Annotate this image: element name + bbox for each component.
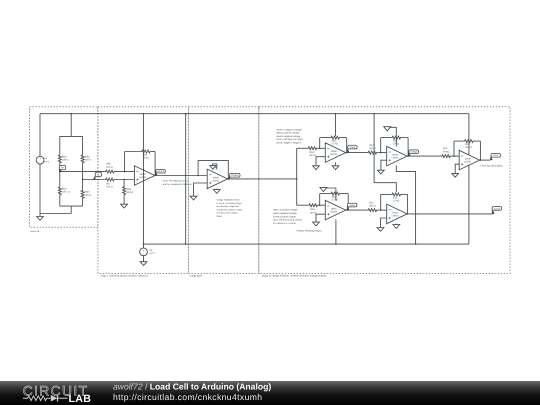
wire R06 to opamp xyxy=(115,171,134,173)
svg-text:Vstable: Vstable xyxy=(231,174,239,177)
junction top rail / V2 column xyxy=(143,113,145,115)
svg-text:Vneg: Vneg xyxy=(350,146,356,149)
svg-text:Inverts negative voltage: Inverts negative voltage xyxy=(276,135,301,138)
svg-text:Positive Reading Output: Positive Reading Output xyxy=(296,229,321,232)
op-amp OA05 buffer xyxy=(207,169,227,189)
svg-text:100 Ω: 100 Ω xyxy=(85,194,92,197)
wire BL output xyxy=(346,209,368,211)
junction stage1 fb node xyxy=(124,171,126,173)
wire final plus input xyxy=(455,164,459,173)
buffer V+ pin symbol xyxy=(216,164,218,169)
wire BL fb top a xyxy=(320,193,331,195)
svg-text:10 V: 10 V xyxy=(44,160,49,163)
wire TM output xyxy=(407,155,441,157)
junction top rail / mid column xyxy=(185,113,187,115)
wire split vertical xyxy=(296,148,298,205)
junction bottom rail BL column xyxy=(335,243,337,245)
junction top rail / TL drop xyxy=(335,113,337,115)
wire TM fb top b xyxy=(401,137,408,139)
BL V+ arrow xyxy=(327,188,336,201)
resistor R03 BL input xyxy=(308,204,318,207)
wire bridge bottom xyxy=(60,205,83,207)
wire bridge tap minus xyxy=(83,179,105,181)
wire bridge right mid xyxy=(82,164,84,190)
junction stage1 fb output xyxy=(154,175,156,177)
resistor RG3 xyxy=(81,154,84,163)
wire TL fb top b xyxy=(340,137,347,139)
wire final rail column xyxy=(468,114,470,244)
wire final output xyxy=(480,159,491,161)
junction bridge left tap xyxy=(59,171,61,173)
output tag TL Vneg xyxy=(347,149,349,153)
wire TM fb down xyxy=(407,138,409,157)
svg-text:100 Ω: 100 Ω xyxy=(62,158,69,161)
output tag TM Vneg2 xyxy=(408,154,410,156)
wire buffer plus input xyxy=(194,183,208,196)
svg-text:http://circuitlab.com/cnkcknu4: http://circuitlab.com/cnkcknu4txumh xyxy=(113,392,262,402)
junction BM input node xyxy=(380,209,382,211)
wire BL fb top b xyxy=(340,193,348,195)
svg-text:OA01: OA01 xyxy=(331,208,338,211)
svg-text:39 kΩ: 39 kΩ xyxy=(443,150,450,153)
svg-text:Voltage Stabilized version: Voltage Stabilized version xyxy=(217,199,240,202)
ground buffer plus xyxy=(190,196,197,200)
wire bottom rail xyxy=(144,243,469,245)
wire TL input stub xyxy=(297,147,308,149)
junction final input node xyxy=(453,155,455,157)
junction bottom rail V2 xyxy=(143,243,145,245)
svg-text:Effect.: Effect. xyxy=(217,215,223,218)
junction buffer fb output xyxy=(228,178,230,180)
ground R09 xyxy=(121,204,128,208)
junction stage1 out / mid column xyxy=(185,175,187,177)
svg-text:OA03: OA03 xyxy=(392,154,399,157)
wire BL fb left xyxy=(319,194,321,206)
svg-text:OA04: OA04 xyxy=(465,158,472,161)
wire bridge left lower xyxy=(59,196,61,207)
output tag Vout xyxy=(490,157,492,160)
output tag BM Vpos2 xyxy=(492,210,494,214)
svg-text:rejects positive voltage.: rejects positive voltage. xyxy=(276,132,300,135)
wire bridge top xyxy=(60,135,83,137)
junction BL fb out xyxy=(347,209,349,211)
op-amp OA03 TM xyxy=(387,146,407,166)
wire bridge tap plus xyxy=(60,171,105,173)
junction bottom rail mid column xyxy=(185,243,187,245)
svg-text:LAB: LAB xyxy=(69,393,92,405)
wire final fb top a xyxy=(454,140,464,142)
svg-text:Stage 2: Voltage Follower / In: Stage 2: Voltage Follower / Inverter (Po… xyxy=(262,275,327,278)
junction bottom rail TM column xyxy=(415,243,417,245)
ground BL plus xyxy=(313,222,320,226)
op-amp OA07 BM xyxy=(387,204,407,224)
ground BM V- xyxy=(395,224,397,225)
wire R09 bottom xyxy=(123,195,125,204)
resistor RG4 xyxy=(81,190,84,199)
ground final plus xyxy=(452,173,459,177)
junction TM fb out xyxy=(407,155,409,157)
svg-text:39 kΩ: 39 kΩ xyxy=(465,146,472,149)
wire BL input stub xyxy=(297,204,309,206)
svg-text:27 kΩ: 27 kΩ xyxy=(393,199,400,202)
svg-text:100 Ω: 100 Ω xyxy=(85,158,92,161)
svg-text:39 kΩ: 39 kΩ xyxy=(369,147,376,150)
resistor R15 BM feedback xyxy=(391,193,401,196)
wire R09 top xyxy=(123,180,125,187)
svg-text:input. Load here can amps: input. Load here can amps xyxy=(276,138,304,141)
ground V2 xyxy=(140,262,147,266)
wire bridge left upper xyxy=(59,136,61,154)
svg-text:OA06: OA06 xyxy=(331,150,338,153)
svg-text:rejects negative voltage.: rejects negative voltage. xyxy=(273,212,298,215)
wire BM fb down xyxy=(406,194,408,214)
node tag B- xyxy=(93,177,95,180)
svg-text:39 kΩ: 39 kΩ xyxy=(309,154,316,157)
junction R09 node xyxy=(123,179,125,181)
svg-text:OA07: OA07 xyxy=(392,211,399,214)
wire BM fb top a xyxy=(381,193,392,195)
resistor R08 feedback xyxy=(141,150,151,153)
wire R10 to TM xyxy=(377,152,386,154)
voltage buffer enclosure box xyxy=(189,107,259,274)
resistor R06 xyxy=(105,170,115,173)
junction TL input node xyxy=(319,148,321,150)
ground TL plus xyxy=(313,166,320,170)
junction BL input node xyxy=(319,204,321,206)
wire R12 to final xyxy=(451,155,459,157)
wire bridge feed drop xyxy=(70,114,72,137)
resistor R02 BL feedback xyxy=(330,192,340,195)
wire buffer feedback xyxy=(198,161,228,179)
resistor R13 final feedback xyxy=(464,140,474,143)
svg-text:100 Ω: 100 Ω xyxy=(106,166,113,169)
wire stage1 feedback down xyxy=(154,152,156,176)
op-amp OA02 stage1 xyxy=(134,166,154,186)
svg-text:100.1 Ω: 100.1 Ω xyxy=(62,190,71,193)
svg-text:39 kΩ: 39 kΩ xyxy=(127,191,134,194)
wire TL fb down xyxy=(346,138,348,153)
wire V2 column through stage1 xyxy=(143,114,145,248)
resistor R04 TL input xyxy=(307,147,317,150)
svg-text:Takes in positive voltage,: Takes in positive voltage, xyxy=(273,209,298,212)
resistor R07 xyxy=(105,178,115,181)
ground buffer V- xyxy=(216,189,218,190)
wire bridge right lower xyxy=(82,199,84,206)
junction buffer fb input xyxy=(197,175,199,177)
wire BM fb left xyxy=(380,194,382,210)
wire V2 bottom xyxy=(143,256,145,262)
svg-text:LM741: LM741 xyxy=(330,153,338,156)
svg-text:+ A/D: Into the arduino: + A/D: Into the arduino xyxy=(480,164,504,167)
ground TL V- xyxy=(335,162,337,165)
wire TM fb left xyxy=(380,138,382,153)
svg-text:changed the output of stage: changed the output of stage xyxy=(217,208,243,211)
output tag Vstable xyxy=(228,177,230,179)
wire final fb top b xyxy=(474,140,481,142)
wire V1 top xyxy=(39,114,41,157)
op-amp OA06 TL xyxy=(325,143,345,163)
svg-text:100 Ω: 100 Ω xyxy=(106,185,113,188)
junction split node xyxy=(296,178,298,180)
voltage source V1 xyxy=(36,156,44,164)
wire TM plus input xyxy=(381,160,387,170)
wire BM rail drop xyxy=(374,114,396,192)
TM V+ arrow xyxy=(389,127,396,146)
svg-text:Stage 1: Differential Amplifie: Stage 1: Differential Amplifier (Amplifi… xyxy=(101,275,148,278)
wire R04 to TL xyxy=(317,147,325,149)
svg-text:B-: B- xyxy=(97,173,100,176)
wire top +10V rail xyxy=(40,113,469,115)
wire R14 to BM xyxy=(377,209,386,211)
svg-text:Vneg2: Vneg2 xyxy=(410,151,417,154)
load cell enclosure box xyxy=(30,107,98,228)
voltage source V2 xyxy=(140,248,148,256)
logo resistor-diode glyph xyxy=(23,396,51,401)
svg-text:Takes in negative voltage,: Takes in negative voltage, xyxy=(276,128,302,131)
ground load cell xyxy=(39,214,41,217)
wire bridge bottom drop xyxy=(70,206,72,213)
wire buffer output xyxy=(228,178,297,180)
wire BM plus input xyxy=(381,218,387,228)
junction top rail / bridge xyxy=(70,113,72,115)
svg-text:LM741: LM741 xyxy=(212,179,220,182)
wire TL plus input xyxy=(316,157,325,166)
ground BM plus xyxy=(377,228,384,232)
wire TL fb left xyxy=(319,138,321,149)
svg-text:27 kΩ: 27 kΩ xyxy=(332,199,339,202)
svg-text:input. Second op amp inverts: input. Second op amp inverts xyxy=(273,219,303,222)
svg-text:of Vamp. Connecting Stage: of Vamp. Connecting Stage xyxy=(217,202,243,205)
svg-text:active. Stage2 + Stage is: active. Stage2 + Stage is xyxy=(276,142,302,145)
wire BL fb down xyxy=(347,194,349,211)
wire load cell bottom return xyxy=(40,213,71,215)
output tag Vamp1 xyxy=(155,173,157,175)
wire bridge left mid xyxy=(59,164,61,187)
wire BL V- to rail xyxy=(335,220,337,245)
wire R07 to opamp xyxy=(115,179,134,181)
junction TM input node xyxy=(380,152,382,154)
wire final fb down xyxy=(479,141,481,160)
junction BM fb out xyxy=(407,213,409,215)
wire mid column xyxy=(185,114,187,244)
wire stage1 feedback up xyxy=(124,152,126,172)
wire TL rail drop xyxy=(335,114,337,136)
output tag BL Vpos xyxy=(347,207,349,210)
wire R03 to BL xyxy=(318,204,325,206)
svg-text:LM741: LM741 xyxy=(392,214,400,217)
svg-text:Voltage Buffer: Voltage Buffer xyxy=(189,275,202,278)
wire TM V- to rail xyxy=(396,165,415,244)
resistor R10 TL-TM xyxy=(367,151,377,154)
wire BM fb top b xyxy=(401,193,407,195)
junction bridge right tap xyxy=(82,179,84,181)
wire stage1 output xyxy=(155,175,207,177)
svg-text:LM741: LM741 xyxy=(392,157,400,160)
svg-text:Inverts positive voltage: Inverts positive voltage xyxy=(273,215,297,218)
svg-text:one due to the Loading: one due to the Loading xyxy=(217,212,238,215)
svg-text:it to result in a + output.: it to result in a + output. xyxy=(273,222,297,225)
wire TM fb top a xyxy=(381,137,392,139)
svg-text:+ Note: The difference of Vo-: + Note: The difference of Vo- xyxy=(161,180,189,183)
ground TM plus xyxy=(378,170,385,174)
svg-text:one directly to stage two: one directly to stage two xyxy=(217,205,240,208)
op-amp OA04 final xyxy=(459,150,479,170)
resistor R05 TL feedback xyxy=(330,136,340,139)
svg-text:OA05: OA05 xyxy=(213,176,220,179)
resistor R12 TM-final xyxy=(441,155,451,158)
svg-text:Vout: Vout xyxy=(493,154,498,157)
wire stage1 feedback top left xyxy=(125,151,141,153)
svg-text:awolf72 / Load Cell to Arduino: awolf72 / Load Cell to Arduino (Analog) xyxy=(113,382,271,392)
svg-text:Load Cell: Load Cell xyxy=(30,230,40,233)
resistor R11 TM feedback xyxy=(391,136,401,139)
wire TL fb top a xyxy=(320,137,331,139)
svg-text:Vamp1: Vamp1 xyxy=(157,170,165,173)
svg-text:Vpos: Vpos xyxy=(350,204,356,207)
svg-text:and Vo+ amplified by R08/R06: and Vo+ amplified by R08/R06 xyxy=(161,183,193,186)
svg-text:Vpos2: Vpos2 xyxy=(494,207,501,210)
wire TL output xyxy=(346,152,368,154)
junction top rail / BM drop xyxy=(373,113,375,115)
junction final fb out xyxy=(480,159,482,161)
junction TL fb out xyxy=(346,152,348,154)
op-amp OA01 BL xyxy=(325,200,345,220)
wire stage1 feedback top right xyxy=(151,151,155,153)
svg-text:27 kΩ: 27 kΩ xyxy=(332,143,339,146)
svg-text:LM741: LM741 xyxy=(464,161,472,164)
stage 1 enclosure box xyxy=(98,107,189,274)
resistor R14 BL-BM xyxy=(367,209,377,212)
wire BM output xyxy=(407,213,492,215)
svg-text:-10 V: -10 V xyxy=(149,252,155,255)
wire V1 bottom xyxy=(39,164,41,213)
svg-text:LM741: LM741 xyxy=(330,211,338,214)
wire BL plus input xyxy=(316,214,325,222)
resistor R09 xyxy=(123,186,126,195)
node tag B+ xyxy=(59,170,61,172)
resistor RG1 xyxy=(58,154,61,163)
wire bridge right upper xyxy=(82,136,84,154)
wire final fb left xyxy=(453,141,455,156)
stage 2 enclosure box xyxy=(259,107,510,274)
svg-text:39 kΩ: 39 kΩ xyxy=(369,204,376,207)
resistor RG2 xyxy=(58,186,61,195)
